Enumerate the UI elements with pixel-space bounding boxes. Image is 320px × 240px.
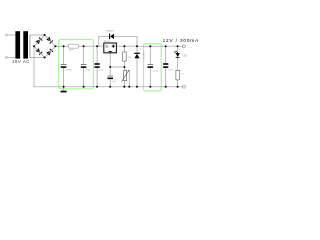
potentiometer P1 [121,70,129,82]
bridge diode D3 (left-bottom edge) [36,48,43,55]
wire bridge right node to fuse [55,45,68,47]
wire transformer secondary bottom to bridge bottom node [30,57,45,59]
wire transformer secondary top to bridge top node [30,34,45,36]
transformer TR1 secondary bar [23,31,28,58]
wire pot bottom [123,81,125,87]
svg-text:1N4007: 1N4007 [106,31,114,33]
transformer TR1 primary bar [15,31,20,58]
svg-text:15V AC: 15V AC [12,59,30,64]
svg-text:LED: LED [183,54,188,57]
resistor R2 (LED series) [176,70,180,80]
svg-text:12V / 300mA: 12V / 300mA [163,38,199,43]
svg-text:100µ: 100µ [86,69,92,71]
wire regulator output rail [116,45,182,47]
svg-text:1N4742: 1N4742 [142,52,144,60]
terminal X2 bottom (output -) [183,86,185,88]
transformer TR1 secondary conductor [29,35,31,58]
bridge diode D4 (bottom-right edge) [46,49,53,56]
wire bridge left node down to ground rail [33,46,35,87]
wire bypass diode riser [99,36,110,46]
green highlight box 2 (output caps) [144,44,162,91]
wire zener branch [136,46,138,53]
capacitor C1 1000u [61,64,73,71]
wire gnd-pin to pot link [110,66,124,68]
capacitor C5 100u [148,64,160,72]
capacitor C2 100n [81,64,92,71]
svg-text:1000µ: 1000µ [66,69,73,71]
diode D5 1N4007 (bypass) [106,31,114,39]
ground symbol [61,91,67,93]
bridge diode D2 (top-right edge) [46,37,53,44]
svg-text:1A F: 1A F [69,49,74,52]
capacitor C4 (regulator gnd) 10u [107,76,116,83]
resistor R1 240 [123,52,127,61]
wire C1 branch [63,46,65,64]
LED D6 [174,51,187,58]
wire fuse to regulator input [78,45,103,47]
wire top terminal to transformer [7,34,15,36]
regulator U1 78L12 [104,41,117,53]
terminal X2 top (output +) [183,45,185,47]
capacitor C6 100n [163,63,174,71]
wire C5 branch [149,46,151,64]
bridge diode D1 (left-top edge) [36,37,43,44]
zener diode ZD1 1N4742 [134,52,144,60]
wire pot wiper drop [128,70,130,87]
wire C2 branch [83,46,85,64]
bridge edges [34,35,55,58]
wire R1 branch [123,46,125,52]
wire bypass diode to output node [114,36,137,46]
svg-text:78L12: 78L12 [104,41,111,43]
terminal X1 top (input) [5,34,7,36]
wire bottom terminal to transformer [7,57,15,59]
svg-text:100n: 100n [168,69,174,71]
terminal X1 bottom (input) [5,56,7,58]
wire C6 branch [165,46,167,63]
wire ground stub [63,87,65,91]
green highlight box 1 (smoothing caps) [59,40,94,89]
wire C3 branch [96,46,98,63]
wire ground rail [34,86,183,88]
wire regulator ground pin [109,53,111,76]
fuse F1 [68,44,78,48]
wire LED branch [177,46,179,53]
junction dots [33,34,179,88]
capacitor C3 10u [95,63,104,71]
svg-text:100µ: 100µ [153,70,159,72]
